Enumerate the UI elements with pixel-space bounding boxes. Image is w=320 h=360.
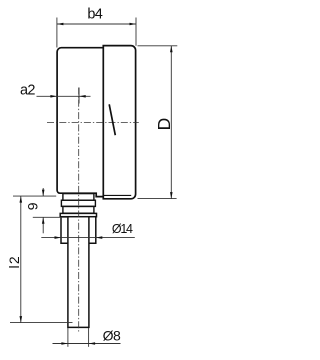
b4 left extension line [56,18,58,48]
svg-text:a2: a2 [20,83,35,99]
collar ring 3 [63,206,94,213]
flange plate [60,213,96,216]
D top extension line [138,45,178,47]
collar ring 2 [61,200,95,206]
vertical centerline (stem axis) [78,88,80,334]
9 top extension line [13,195,56,197]
dia8 right extension line [88,328,90,347]
b4 right extension line [135,18,137,46]
hex nut outline [61,217,96,244]
a2 dimension line [37,95,91,97]
horizontal centerline (dial axis) [47,121,139,123]
a2 right arrowhead (outside, pointing left) [79,95,86,98]
9 bottom extension line [33,216,68,218]
l2 dimension line [20,196,22,323]
a2 left arrowhead (outside, pointing right) [50,95,57,98]
collar ring 1 [63,194,94,201]
dia8 left extension line [67,328,69,347]
dia14 left arrowhead (pointing right) [55,236,62,239]
b4 dimension line [57,23,136,25]
pointer mark (needle seen on dial side) [109,104,115,135]
9 upper arrowhead (pointing down) [42,190,45,197]
l2 top arrowhead (pointing up) [20,196,23,203]
dia8 right arrowhead (pointing left) [89,342,96,345]
9 lower arrowhead (pointing up) [42,217,45,224]
svg-text:l2: l2 [6,255,22,268]
svg-text:D: D [154,118,174,131]
dia8 left arrowhead (pointing right) [61,342,68,345]
D dimension line [170,46,172,199]
dia14 right arrowhead (pointing left) [96,236,103,239]
stem (probe tube) with hex facet lines [68,217,89,328]
l2 bottom arrowhead (pointing down) [20,316,23,323]
svg-text:Ø8: Ø8 [103,328,121,344]
D bottom arrowhead [170,192,173,199]
9 dimension line lower segment [42,217,44,233]
svg-text:Ø14: Ø14 [112,222,133,236]
D bottom extension line [138,198,177,200]
b4 left arrowhead [57,23,64,26]
l2 bottom extension line [10,322,73,324]
bezel back rim line [103,194,131,196]
case (housing drum, side view) [57,48,103,197]
b4 right arrowhead [130,23,137,26]
9 dimension line upper segment [42,188,44,196]
D top arrowhead [170,46,173,53]
svg-text:b4: b4 [87,7,102,23]
a2 extension segment (solid over centerline) [78,88,80,104]
bezel (dial ring, side view) [103,46,135,199]
svg-text:9: 9 [25,202,41,210]
dia8 dimension line [53,343,121,345]
dia14 dimension line [41,237,135,239]
